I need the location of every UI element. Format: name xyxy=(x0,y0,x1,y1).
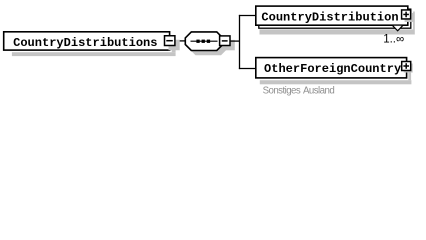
element box OtherForeignCountry shadow xyxy=(260,80,412,84)
element box OtherForeignCountry xyxy=(256,58,407,78)
element box CountryDistribution shadow xyxy=(260,29,415,34)
svg-text:CountryDistributions: CountryDistributions xyxy=(13,36,157,50)
wire from CountryDistributions to sequence xyxy=(174,40,186,42)
svg-text:CountryDistribution: CountryDistribution xyxy=(261,10,398,24)
sequence compositor xyxy=(185,32,223,51)
expand button (plus) of CountryDistribution xyxy=(402,10,411,19)
element box CountryDistributions shadow xyxy=(12,52,176,56)
expand button (plus) of OtherForeignCountry xyxy=(402,62,411,71)
wire to OtherForeignCountry xyxy=(239,68,256,70)
collapse button (minus) of CountryDistributions xyxy=(165,36,175,46)
expand button (plus) of CountryDistribution shadow xyxy=(405,13,414,22)
collapse button (minus) of sequence xyxy=(220,36,230,46)
element box CountryDistributions xyxy=(4,32,170,50)
element box CountryDistribution xyxy=(256,6,408,25)
svg-text:Sonstiges Ausland: Sonstiges Ausland xyxy=(263,85,335,96)
element box CountryDistribution back (repeating) xyxy=(259,9,411,28)
sequence compositor shadow xyxy=(190,37,228,56)
wire to CountryDistribution xyxy=(239,15,256,17)
wire from sequence to branch xyxy=(230,40,240,42)
expand button (plus) of OtherForeignCountry shadow xyxy=(404,64,413,73)
sequence glyph line xyxy=(191,40,218,42)
svg-text:1..∞: 1..∞ xyxy=(383,33,404,45)
svg-text:OtherForeignCountry: OtherForeignCountry xyxy=(264,62,401,76)
collapse button (minus) of sequence shadow xyxy=(224,40,235,50)
branch vertical wire xyxy=(239,15,241,69)
sequence glyph dots xyxy=(196,40,210,43)
collapse button (minus) of CountryDistributions shadow xyxy=(169,40,180,51)
notch under CountryDistribution xyxy=(392,25,403,31)
